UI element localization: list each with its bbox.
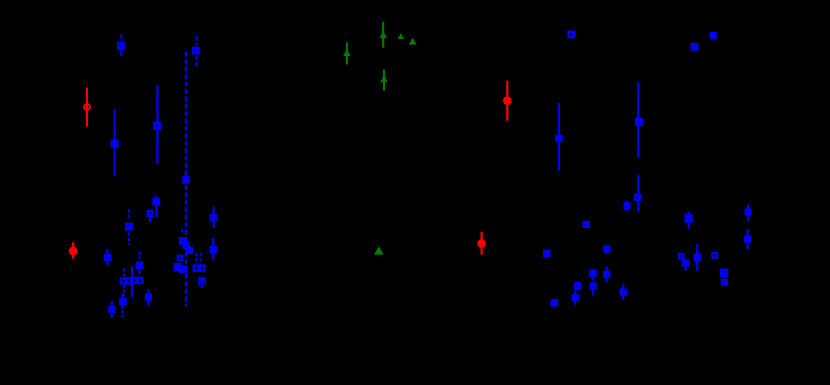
R25 dashed below <box>592 278 594 282</box>
R4 errorbar <box>637 82 639 158</box>
R26 open square <box>591 284 596 289</box>
R20 errorbar <box>747 205 749 221</box>
L16 errorbar <box>111 301 113 317</box>
strip open square 3 <box>132 278 137 283</box>
R12 bar through <box>606 246 608 253</box>
L9 filled square <box>125 223 133 231</box>
R13 filled square <box>684 214 692 222</box>
R12 open square <box>604 247 609 252</box>
R21 errorbar <box>747 229 749 250</box>
L12 filled square <box>136 261 144 269</box>
G4 triangle <box>409 38 417 45</box>
R17 open square <box>712 253 717 258</box>
L1 errorbar upper dashed <box>120 35 122 42</box>
L9 errorbar lower dashed <box>128 233 130 245</box>
strip bar dashed lower <box>123 285 125 297</box>
L2 red errorbar <box>86 88 88 127</box>
R7 open square <box>692 44 697 49</box>
L12 errorbar lower <box>138 269 140 274</box>
R21 filled square <box>744 236 751 243</box>
R23 open square <box>575 284 580 289</box>
cluster filled square b <box>183 242 190 249</box>
cluster filled square c <box>186 247 193 254</box>
R18 open square <box>721 270 726 275</box>
R5 errorbar <box>637 175 639 212</box>
L13 open square <box>211 215 216 220</box>
L4 open square <box>154 123 159 128</box>
L8 open square <box>148 211 153 216</box>
G3 triangle <box>398 33 405 39</box>
R16 errorbar <box>696 244 698 271</box>
L1 open square <box>118 43 123 48</box>
L10 errorbar <box>106 249 108 266</box>
cluster stub below <box>201 286 203 289</box>
G5 triangle <box>380 76 388 83</box>
L3 errorbar <box>113 109 115 176</box>
cluster filled square i <box>198 277 206 285</box>
cluster blob square f <box>179 265 187 273</box>
L17 filled square <box>145 294 152 301</box>
R27 errorbar <box>606 266 608 282</box>
R19 bar through <box>723 279 725 286</box>
R18 bar through <box>723 268 725 277</box>
R24 open square <box>573 295 578 300</box>
R2 red errorbar <box>506 81 508 121</box>
R5 open square <box>635 195 640 200</box>
L14 errorbar <box>212 238 214 260</box>
L6 line through <box>185 175 187 184</box>
R9 red errorbar <box>481 232 483 255</box>
G2 triangle <box>379 31 387 38</box>
L4 errorbar <box>156 85 158 164</box>
L5 open square <box>193 48 198 53</box>
L13 errorbar <box>213 206 215 228</box>
square i holes <box>199 282 201 284</box>
R4 open square <box>636 119 641 124</box>
strip open square 1 <box>121 279 126 284</box>
R24 errorbar <box>574 291 576 305</box>
cluster open square g <box>194 266 199 271</box>
cluster open square d <box>178 256 183 261</box>
R23 bar through <box>577 282 579 290</box>
L1 errorbar lower <box>120 43 122 56</box>
R11 bar through <box>585 221 587 228</box>
strip bar dashed upper <box>123 269 125 279</box>
R25 bar through <box>592 269 594 277</box>
R6 open square <box>625 203 630 208</box>
L7 filled square <box>152 198 160 206</box>
R28 open square <box>621 290 626 295</box>
R6 errorbar <box>626 201 628 211</box>
dashed vertical reference line <box>185 52 187 306</box>
L16 open square <box>109 307 114 312</box>
G6 large triangle <box>374 246 384 254</box>
R10 bar through <box>546 250 548 257</box>
cluster dashed bar h <box>200 253 202 265</box>
R16 filled square <box>694 254 701 261</box>
L9 errorbar upper dashed <box>128 210 130 219</box>
R28 errorbar <box>622 284 624 300</box>
R19 open square <box>722 280 727 285</box>
R15 stub below <box>684 267 686 271</box>
cluster dash above <box>181 229 183 232</box>
strip bar solid <box>131 266 133 297</box>
strip open square 4 <box>138 278 143 283</box>
G1 errorbar <box>346 43 348 65</box>
R25 open square <box>590 271 595 276</box>
L10 open square <box>105 255 110 260</box>
R27 open square <box>604 272 609 277</box>
R22 filled square <box>551 299 559 307</box>
L8 errorbar <box>149 214 151 223</box>
L6 open square on line <box>183 177 188 182</box>
L5 errorbar upper dashed <box>195 36 197 46</box>
G5 errorbar <box>383 70 385 91</box>
R3 open square <box>556 136 561 141</box>
L12 errorbar upper dashed <box>138 252 140 259</box>
cluster open square h <box>199 266 204 271</box>
cluster dashed bar g <box>195 253 197 265</box>
G1 triangle <box>343 49 351 56</box>
R11 open square <box>584 222 589 227</box>
L14 filled square <box>210 246 217 253</box>
R15 filled square <box>682 259 690 267</box>
cluster filled square a <box>179 237 187 245</box>
L5 errorbar lower dashed <box>195 55 197 66</box>
R26 errorbar <box>592 282 594 295</box>
cluster blob square e <box>174 263 182 271</box>
R9 red filled circle <box>477 239 486 248</box>
L11 red errorbar <box>72 242 74 258</box>
R3 errorbar <box>558 103 560 171</box>
strip open square 2 <box>127 279 132 284</box>
R10 open square <box>544 251 549 256</box>
R20 filled square <box>745 209 752 216</box>
L3 filled square <box>111 140 119 148</box>
L2 open red circle <box>84 104 90 110</box>
L11 red filled circle <box>69 247 78 256</box>
R8 filled square <box>710 32 717 39</box>
G2 errorbar <box>382 22 384 48</box>
R13 errorbar <box>688 211 690 229</box>
R1 open square <box>569 32 574 37</box>
L7 errorbar <box>155 196 157 218</box>
L15 dashed bar below <box>121 306 123 318</box>
L5 errorbar mid <box>195 47 197 54</box>
R14 small open square <box>679 254 684 259</box>
L17 errorbar <box>147 289 149 306</box>
R2 red filled circle <box>503 96 512 105</box>
R7 bar through <box>693 44 695 51</box>
L15 bar through <box>121 293 123 306</box>
L15 open square <box>120 299 125 304</box>
